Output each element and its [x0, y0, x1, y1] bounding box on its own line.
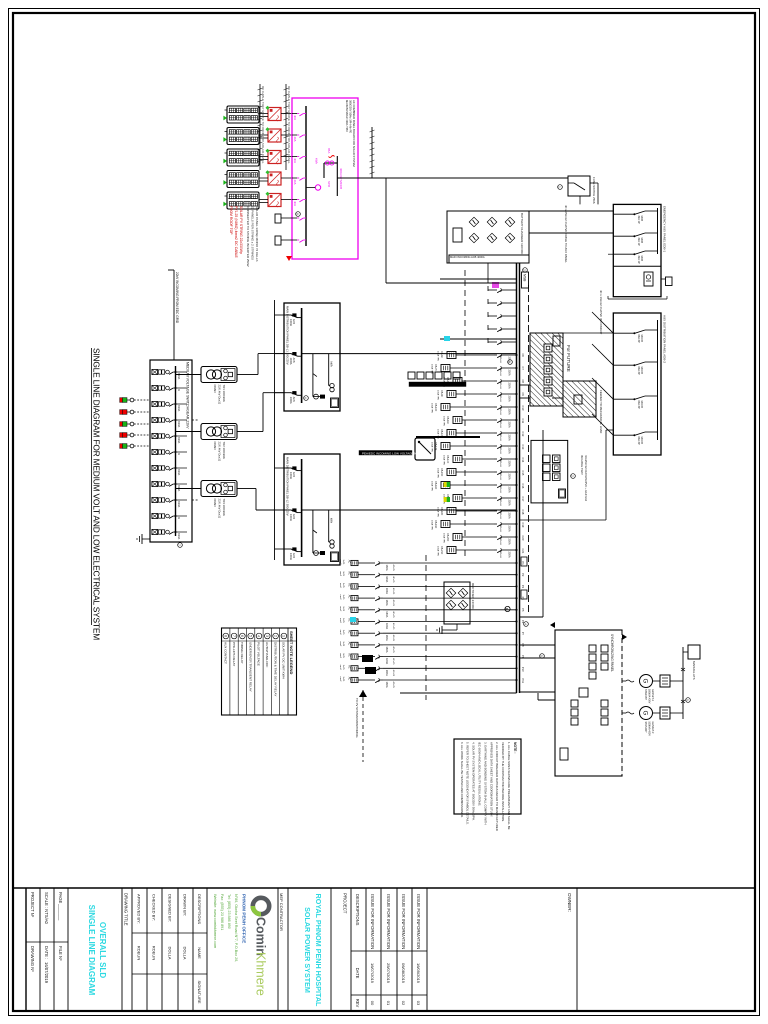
svg-text:C13: C13 — [521, 445, 525, 450]
svg-text:4Cx16: 4Cx16 — [499, 396, 501, 403]
svg-text:SYNCHRONIZING PANEL: SYNCHRONIZING PANEL — [610, 634, 614, 672]
svg-text:MEDIUM VOLTAGE SWITCHGEAR 22kV: MEDIUM VOLTAGE SWITCHGEAR 22kV — [186, 362, 190, 429]
svg-text:4Cx16: 4Cx16 — [499, 500, 501, 507]
AP2 breaker 1 — [645, 329, 658, 331]
svg-text:4Cx16: 4Cx16 — [499, 526, 501, 533]
svg-text:GENSET-1: GENSET-1 — [651, 689, 654, 701]
legend row 4 — [254, 628, 256, 715]
PV array string A3 — [227, 149, 259, 166]
svg-text:DRAWING Nº: DRAWING Nº — [30, 946, 35, 972]
circled B node — [505, 606, 510, 611]
svg-text:250A: 250A — [508, 474, 512, 480]
ground symbol rectifier — [456, 624, 458, 630]
MV cubicle 6 — [152, 449, 176, 454]
svg-text:C20: C20 — [521, 536, 525, 541]
svg-text:FROM ROOF TOP: FROM ROOF TOP — [229, 206, 233, 235]
svg-text:mm2: mm2 — [339, 618, 341, 624]
wire TR2 to MV panel — [176, 431, 202, 433]
svg-text:DB-15F: DB-15F — [440, 468, 443, 477]
MV cubicle 5 — [152, 433, 176, 438]
svg-text:P1: P1 — [521, 562, 525, 566]
svg-text:4Cx35mm2 CU/XLPE/PVC + E16mm2: 4Cx35mm2 CU/XLPE/PVC + E16mm2 — [584, 455, 588, 502]
combiner spare input box 2 — [275, 236, 281, 245]
svg-text:250A: 250A — [508, 539, 512, 545]
svg-text:APPROVED DATA SHEET AND COORDI: APPROVED DATA SHEET AND COORDINATION STU… — [489, 742, 493, 817]
transformer TR2 1000kVA — [201, 424, 237, 440]
svg-text:2: 2 — [273, 635, 277, 637]
svg-text:4C x 16mm2 CU/PVC IN CONDUIT: 4C x 16mm2 CU/PVC IN CONDUIT — [599, 290, 603, 335]
svg-text:SINGLE LINE DIAGRAM: SINGLE LINE DIAGRAM — [87, 905, 96, 996]
svg-text:TR3 1000kVA: TR3 1000kVA — [222, 499, 226, 516]
svg-text:4Cx25: 4Cx25 — [392, 565, 394, 572]
MSB feeder G1 — [383, 562, 517, 564]
svg-text:4Cx25: 4Cx25 — [392, 635, 394, 642]
MSB feeder F21 — [505, 549, 517, 551]
transformer TR3 1000kVA — [201, 481, 237, 497]
svg-text:DB-14F: DB-14F — [446, 455, 449, 464]
MSB feeder F20 — [505, 536, 517, 538]
legend row 3 — [262, 628, 264, 715]
svg-text:mm2: mm2 — [339, 665, 341, 671]
wire TR1 to MV panel — [176, 374, 202, 376]
MSB feeder F2 — [505, 302, 517, 304]
svg-text:4Cx25: 4Cx25 — [392, 576, 394, 583]
svg-text:FUSE SWITCH 250A: FUSE SWITCH 250A — [592, 177, 596, 204]
svg-text:CONNECTED TO STRING INVERTER 2: CONNECTED TO STRING INVERTER 25kW — [246, 206, 250, 267]
svg-text:40A: 40A — [293, 115, 297, 120]
svg-text:4Cx25: 4Cx25 — [392, 588, 394, 595]
PV array string A2 — [227, 128, 259, 145]
svg-text:DB-16F: DB-16F — [434, 481, 437, 490]
svg-text:DESIGNED BY:: DESIGNED BY: — [167, 894, 172, 922]
MSB feeder G3 — [383, 585, 517, 587]
wire AP2 right to MSB — [606, 429, 613, 431]
svg-text:FEEDER TO MECHANICAL LOAD: FEEDER TO MECHANICAL LOAD — [599, 390, 603, 433]
svg-text:DOLLA: DOLLA — [167, 946, 172, 959]
svg-text:8: 8 — [224, 635, 228, 637]
wire: AC feed branch to MSB — [385, 178, 387, 283]
svg-text:250A: 250A — [508, 513, 512, 519]
svg-text:22kV INCOMING FROM EDC GRID: 22kV INCOMING FROM EDC GRID — [175, 272, 179, 324]
AP2 breaker 3 — [645, 395, 658, 397]
svg-text:DATE :: DATE : — [44, 946, 49, 959]
svg-text:DISTRIBUTION & TIME DELAY RELA: DISTRIBUTION & TIME DELAY RELAY — [273, 642, 277, 696]
svg-text:250A: 250A — [508, 500, 512, 506]
svg-text:MSB: MSB — [523, 274, 527, 282]
svg-text:5: 5 — [248, 635, 252, 637]
svg-text:160A: 160A — [385, 682, 389, 688]
svg-text:kWh: kWh — [315, 158, 319, 164]
svg-text:250A: 250A — [508, 396, 512, 402]
svg-text:C17: C17 — [521, 497, 525, 502]
MSB feeder F13 — [505, 445, 517, 447]
svg-text:4Cx16: 4Cx16 — [499, 435, 501, 442]
svg-text:ROEUN: ROEUN — [151, 946, 156, 961]
svg-text:63A 3P: 63A 3P — [637, 437, 640, 445]
AP2 feeder drop 1 — [592, 312, 613, 333]
svg-text:4Cx16: 4Cx16 — [499, 552, 501, 559]
title block: descriptions/date/rev header — [351, 950, 366, 952]
voltage indicator lamp 1 — [122, 398, 127, 403]
arrow into notes — [359, 690, 367, 697]
svg-text:40A: 40A — [293, 137, 297, 142]
voltage indicator lamp 5 — [122, 444, 127, 449]
svg-text:250A: 250A — [508, 422, 512, 428]
hatched panel (for future) 1 — [530, 333, 563, 406]
gen tie bus — [682, 647, 684, 719]
arrow markers near gen box — [622, 634, 627, 640]
svg-text:3: 3 — [265, 635, 269, 637]
svg-text:C18: C18 — [521, 510, 525, 515]
svg-text:160A: 160A — [385, 600, 389, 606]
svg-text:MCCB: MCCB — [640, 335, 643, 343]
svg-text:TR2 1000kVA: TR2 1000kVA — [222, 442, 226, 459]
svg-text:4: 4 — [257, 635, 261, 637]
svg-text:DB-21F: DB-21F — [440, 546, 443, 555]
LVP1 incomer riser — [302, 353, 340, 355]
notes box — [454, 739, 521, 814]
svg-text:C9: C9 — [521, 393, 525, 397]
svg-text:160A: 160A — [385, 670, 389, 676]
svg-text:C7: C7 — [521, 367, 525, 371]
svg-text:3x25: 3x25 — [342, 583, 344, 589]
legend row 1 — [279, 628, 281, 715]
svg-text:ISSUE FOR INFORMATION: ISSUE FOR INFORMATION — [401, 894, 406, 949]
svg-text:DESCRIPTIONS: DESCRIPTIONS — [197, 894, 202, 924]
svg-text:ACB: ACB — [292, 472, 295, 477]
svg-text:32A 1P: 32A 1P — [637, 238, 640, 246]
svg-text:mm2: mm2 — [339, 571, 341, 577]
MSB feeder G2 — [383, 574, 517, 576]
AP2 breaker 4 — [645, 431, 658, 433]
gen incomer wires — [520, 644, 556, 646]
svg-text:NAME: NAME — [197, 947, 202, 959]
svg-text:MANUAL ATS: MANUAL ATS — [692, 661, 696, 680]
MV cubicle 3 — [152, 401, 176, 406]
LVP2 feeder 1 — [284, 467, 291, 469]
MV cubicle 9 — [152, 497, 176, 502]
svg-text:PEA/EDC INCOMING LOW VOLTAGE M: PEA/EDC INCOMING LOW VOLTAGE MAIN — [362, 451, 422, 455]
svg-text:3x25: 3x25 — [342, 618, 344, 624]
wire TR2 to LV panel — [237, 431, 249, 433]
AP1 compartment divider — [613, 265, 661, 267]
svg-text:P4: P4 — [521, 597, 525, 601]
inverter INV-3 — [268, 151, 281, 164]
svg-text:CHECKED BY:: CHECKED BY: — [151, 894, 156, 921]
cyan tag lower feeder — [350, 617, 356, 622]
G2 breaker box — [660, 707, 670, 719]
svg-text:AC COMBINER PANEL BOARD FOR SO: AC COMBINER PANEL BOARD FOR SOLAR SYSTEM — [352, 100, 356, 167]
magenta meter circle — [315, 185, 320, 190]
svg-text:4Cx16: 4Cx16 — [499, 513, 501, 520]
svg-text:3x25: 3x25 — [342, 560, 344, 566]
svg-text:1. ALL CABLE SIZES SHOWN ARE P: 1. ALL CABLE SIZES SHOWN ARE PRELIMINARY… — [507, 742, 511, 830]
svg-text:630A: 630A — [177, 437, 181, 443]
svg-text:22 PANELS PER STRING x 2 STRIN: 22 PANELS PER STRING x 2 STRINGS — [251, 206, 255, 260]
svg-text:N°86, Oknha Seet Road N°7, P.O: N°86, Oknha Seet Road N°7, P.O.Box 26, — [234, 894, 238, 962]
LV panel bus — [301, 308, 303, 403]
LVP metering branch 2 — [328, 354, 330, 386]
svg-text:C10: C10 — [521, 406, 525, 411]
MSB feeder F10 — [505, 406, 517, 408]
fused disconnect switch for PV feed — [568, 176, 590, 196]
svg-text:3x25: 3x25 — [342, 571, 344, 577]
svg-text:250A: 250A — [508, 435, 512, 441]
svg-text:16/07/2019: 16/07/2019 — [44, 962, 49, 984]
svg-text:40A: 40A — [293, 158, 297, 163]
MSB feeder G6 — [383, 621, 517, 623]
svg-text:FILE Nº: FILE Nº — [58, 946, 63, 961]
sync panel metering chain — [601, 645, 608, 652]
svg-text:PAGE: PAGE — [58, 892, 63, 904]
LVP metering branch 2 — [328, 510, 330, 542]
coupling nameplate — [559, 489, 566, 498]
MSB feeder F3 — [505, 315, 517, 317]
voltage indicator lamp 4 — [122, 433, 127, 438]
changeover switch LV incomer — [415, 438, 435, 460]
svg-text:SOLAR POWER SYSTEM: SOLAR POWER SYSTEM — [303, 907, 312, 993]
ATS boxes inside hatch — [544, 344, 552, 352]
wire: combiner output riser — [338, 177, 568, 179]
svg-text:DRAWN BY:: DRAWN BY: — [182, 894, 187, 916]
svg-text:4Cx25: 4Cx25 — [392, 600, 394, 607]
sync panel nameplate — [560, 748, 568, 760]
svg-text:03: 03 — [416, 1001, 421, 1006]
svg-text:PROJECT: PROJECT — [343, 893, 348, 914]
svg-text:16/09/2019: 16/09/2019 — [416, 963, 421, 984]
svg-text:TR1 1000kVA: TR1 1000kVA — [222, 385, 226, 402]
DC rectifier block 2 — [444, 582, 470, 624]
svg-text:For FUTURE: For FUTURE — [566, 345, 571, 372]
AP2 feeder drop 2 — [592, 344, 613, 365]
AP1 contactor compartment — [644, 272, 653, 286]
svg-text:RECTIFIER 24VDC: RECTIFIER 24VDC — [471, 583, 475, 610]
svg-text:4. SOLAR PV SYSTEM OPERATES AT: 4. SOLAR PV SYSTEM OPERATES AT 380/220V … — [472, 742, 476, 821]
svg-text:22/0.4kV Dyn11: 22/0.4kV Dyn11 — [218, 499, 222, 519]
svg-text:630A: 630A — [177, 469, 181, 475]
svg-text:DB-7F: DB-7F — [434, 364, 437, 371]
PV array string A4 — [227, 171, 259, 188]
aux distribution panel AP1 — [613, 204, 661, 296]
svg-text:DESCRIPTIONS: DESCRIPTIONS — [355, 894, 360, 926]
LVP1 feeder 2 — [284, 353, 291, 355]
svg-text:MCB: MCB — [640, 216, 643, 222]
svg-text:MCCB: MCCB — [640, 401, 643, 409]
svg-text:4Cx25: 4Cx25 — [392, 670, 394, 677]
gen feed to MSB bus — [520, 691, 556, 693]
svg-text:SCALE : NTS/A0: SCALE : NTS/A0 — [44, 892, 49, 925]
svg-text:MAIN INCOMING ACB 4000A: MAIN INCOMING ACB 4000A — [450, 255, 485, 259]
svg-text:ISSUE FOR INFORMATION: ISSUE FOR INFORMATION — [416, 894, 421, 949]
svg-text:4Cx16: 4Cx16 — [499, 409, 501, 416]
svg-text:4C x 25mm2 CU/PVC CABLE TO AUX: 4C x 25mm2 CU/PVC CABLE TO AUX PANEL — [564, 205, 568, 263]
svg-text:SINGLE LINE DIAGRAM FOR MEDIUM: SINGLE LINE DIAGRAM FOR MEDIUM VOLT AND … — [92, 348, 102, 640]
svg-text:SOLAR PV DC UNIT KWH: SOLAR PV DC UNIT KWH — [282, 642, 286, 679]
svg-text:MCB: MCB — [640, 238, 643, 244]
LVP metering branch 1 — [312, 354, 314, 397]
svg-text:TIMING RELAY: TIMING RELAY — [240, 642, 244, 664]
svg-text:SHEET NOTE LEGEND: SHEET NOTE LEGEND — [289, 631, 294, 674]
MV cubicle 1 — [152, 369, 176, 374]
svg-text:DB-18F: DB-18F — [440, 507, 443, 516]
svg-text:PHILLIPS RELAY: PHILLIPS RELAY — [232, 642, 236, 666]
LVP metering branch 1 — [312, 510, 314, 553]
svg-text:3. EARTHING AND BONDING SYSTEM: 3. EARTHING AND BONDING SYSTEM SHALL COM… — [483, 742, 487, 825]
svg-text:mm2: mm2 — [339, 630, 341, 636]
svg-text:C15: C15 — [521, 471, 525, 476]
aux distribution panel AP2 — [613, 313, 661, 455]
svg-text:ISSUE FOR INFORMATION: ISSUE FOR INFORMATION — [386, 894, 391, 949]
svg-text:P3: P3 — [521, 585, 525, 589]
svg-text:OWNER:: OWNER: — [567, 893, 572, 912]
svg-text:25/07/2019: 25/07/2019 — [386, 963, 391, 984]
svg-text:Tel: (855) 23 886 890: Tel: (855) 23 886 890 — [227, 894, 231, 929]
svg-text:22/0.4kV Dyn11: 22/0.4kV Dyn11 — [218, 442, 222, 462]
svg-text:160A: 160A — [385, 565, 389, 571]
PV AC combiner panel (magenta) — [292, 98, 358, 259]
svg-text:MCB: MCB — [640, 256, 643, 262]
LV main panel LVP1 — [284, 303, 340, 411]
MSB feeder F16 — [505, 484, 517, 486]
svg-text:PILOT VOLTAGE: PILOT VOLTAGE — [257, 642, 261, 666]
svg-text:G: G — [642, 711, 648, 716]
LVP2 incomer riser — [302, 509, 340, 511]
cable termination marks — [681, 668, 685, 671]
svg-text:C11: C11 — [521, 419, 525, 424]
inverter INV-1 — [268, 108, 281, 121]
incomer thick link — [416, 436, 480, 438]
svg-text:160A: 160A — [385, 611, 389, 617]
svg-text:DB-20F: DB-20F — [446, 533, 449, 542]
svg-text:DATE: DATE — [355, 968, 360, 979]
svg-text:kWh: kWh — [330, 362, 334, 368]
svg-text:3x25: 3x25 — [342, 641, 344, 647]
AC bus inside combiner — [305, 106, 307, 246]
svg-text:VERIFIED BY THE CONTRACTOR BEF: VERIFIED BY THE CONTRACTOR BEFORE INSTAL… — [501, 742, 505, 822]
transformer TR1 1000kVA — [201, 367, 237, 383]
red arrow marker — [286, 256, 292, 261]
MSB feeder F15 — [505, 471, 517, 473]
svg-text:4Cx16: 4Cx16 — [499, 383, 501, 390]
AP2 feeder drop 4 — [592, 414, 613, 435]
svg-text:7: 7 — [232, 635, 236, 637]
svg-text:kWh: kWh — [330, 518, 334, 524]
svg-text:ACB: ACB — [292, 397, 295, 402]
AP1 breaker 2 — [645, 232, 658, 234]
svg-text:EMERGENCY AUX PANEL EDB-1: EMERGENCY AUX PANEL EDB-1 — [663, 206, 667, 252]
svg-text:ROEUN: ROEUN — [136, 946, 141, 961]
svg-text:630A: 630A — [177, 533, 181, 539]
coupling wire to bus — [542, 430, 544, 617]
svg-text:630A: 630A — [177, 421, 181, 427]
G1 cable flex — [626, 680, 634, 682]
svg-text:500kVA 400V: 500kVA 400V — [648, 689, 651, 704]
title block: name table header — [132, 932, 207, 934]
LV riser links — [249, 374, 258, 376]
svg-text:MCCB: MCCB — [640, 367, 643, 375]
svg-text:SPD: SPD — [327, 181, 331, 188]
MSB feeder G9 — [383, 656, 517, 658]
MSB feeder G7 — [383, 632, 517, 634]
svg-text:mm2: mm2 — [339, 641, 341, 647]
LV collector wire below panels — [274, 300, 276, 560]
svg-text:3x25: 3x25 — [342, 606, 344, 612]
svg-text:P11: P11 — [521, 679, 525, 684]
svg-text:DRAWING TITLE: DRAWING TITLE — [124, 893, 129, 926]
svg-text:160A: 160A — [385, 635, 389, 641]
svg-text:MEP CONTRACTOR: MEP CONTRACTOR — [279, 893, 284, 931]
svg-text:DB-11F: DB-11F — [446, 416, 449, 425]
inverter INV-4 — [268, 172, 281, 185]
svg-text:250A: 250A — [508, 448, 512, 454]
svg-text:ACB: ACB — [292, 514, 295, 519]
svg-text:SOLAR PANEL 330Wp MONO 72 CELL: SOLAR PANEL 330Wp MONO 72 CELLS — [255, 206, 259, 262]
MSB feeder F19 — [505, 523, 517, 525]
svg-text:250A: 250A — [508, 461, 512, 467]
MSB feeder F1 — [505, 289, 517, 291]
svg-text:ONAN: ONAN — [213, 385, 217, 393]
sub-distribution metering strip — [453, 372, 460, 379]
svg-text:mm2: mm2 — [339, 606, 341, 612]
AP1 breaker 3 — [645, 250, 658, 252]
svg-text:500kVA 400V: 500kVA 400V — [648, 722, 651, 737]
AP2 breaker 2 — [645, 361, 658, 363]
green-yellow tags on feeders — [447, 482, 450, 487]
svg-text:250A: 250A — [508, 552, 512, 558]
LVP2 feeder 2 — [284, 509, 291, 511]
svg-text:01: 01 — [386, 1001, 391, 1006]
cyan tag on feeder — [444, 336, 450, 341]
LVP1 feeder 1 — [284, 314, 291, 316]
svg-text:DOLLA: DOLLA — [182, 946, 187, 959]
magenta tag on feeder F1 — [492, 282, 499, 288]
MSB main busbar — [519, 263, 521, 693]
svg-text:250A: 250A — [508, 409, 512, 415]
svg-text:4Cx25: 4Cx25 — [392, 658, 394, 665]
svg-text:63A 3P: 63A 3P — [637, 367, 640, 375]
svg-text:3x25: 3x25 — [342, 677, 344, 683]
MSB feeder G5 — [383, 609, 517, 611]
wires into AP1 from below — [529, 210, 613, 212]
svg-text:DB-10F: DB-10F — [434, 403, 437, 412]
svg-text:mm2: mm2 — [339, 653, 341, 659]
svg-text:R: R — [177, 517, 181, 519]
svg-text:4Cx16: 4Cx16 — [499, 539, 501, 546]
MSB feeder F11 — [505, 419, 517, 421]
MSB feeder F14 — [505, 458, 517, 460]
svg-text:mm2: mm2 — [339, 677, 341, 683]
svg-text:4Cx16: 4Cx16 — [499, 357, 501, 364]
MSB feeder F4 — [505, 328, 517, 330]
svg-text:ACB: ACB — [292, 553, 295, 558]
svg-text:4Cx16: 4Cx16 — [499, 474, 501, 481]
svg-text:4Cx16: 4Cx16 — [499, 370, 501, 377]
black nameplate tags lower feeders — [362, 655, 373, 662]
legend row 5 — [246, 628, 248, 715]
AP1 external relay box — [666, 277, 673, 286]
combiner breaker CB-5 (magenta) — [297, 200, 306, 202]
svg-text:DB-9F: DB-9F — [440, 390, 443, 397]
svg-text:NOTE :: NOTE : — [513, 742, 517, 754]
svg-text:PV1-25 (N8M2) 4mm2 DC CABLE: PV1-25 (N8M2) 4mm2 DC CABLE — [234, 206, 238, 259]
svg-text:PROJECT Nº: PROJECT Nº — [30, 892, 35, 918]
MV cubicle 2 — [152, 385, 176, 390]
black label bar (vertical) B: PEA/EDC incoming — [359, 451, 412, 456]
MV cubicle 8 — [152, 481, 176, 486]
LV panel nameplate — [331, 552, 339, 562]
wire: tap to inverter row with tick marks — [371, 127, 373, 178]
combiner spare input box 1 — [275, 214, 281, 223]
